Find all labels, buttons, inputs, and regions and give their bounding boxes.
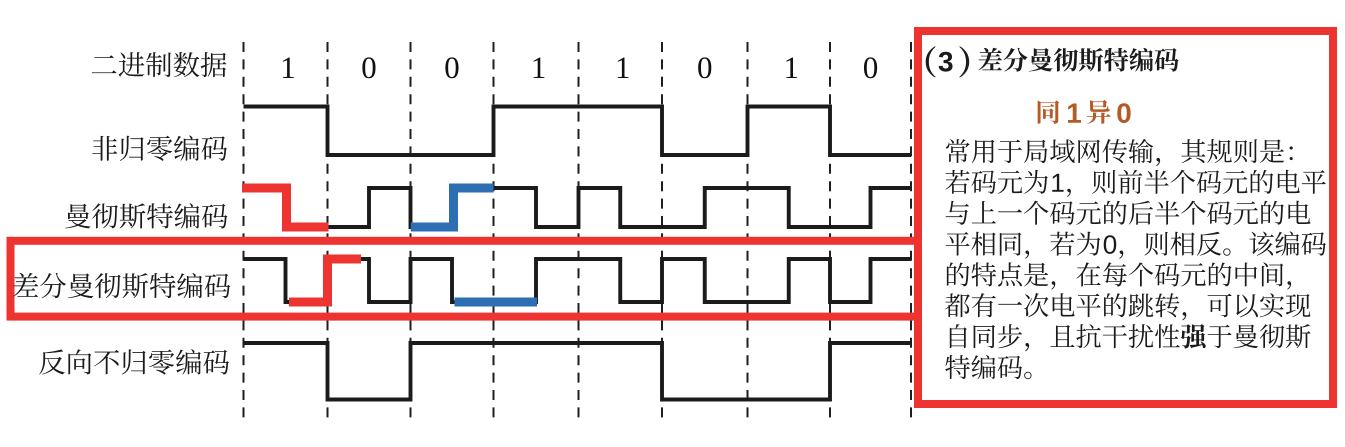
- body text line 3: [946, 201, 1311, 225]
- dashed cell boundary 3: [410, 42, 412, 421]
- body text line 6: [945, 293, 1310, 320]
- orange subtitle 1: [1068, 104, 1081, 123]
- dashed cell boundary 9: [910, 42, 912, 421]
- dashed cell boundary 6: [661, 42, 663, 421]
- NRZ waveform: [244, 107, 912, 156]
- NRZI waveform: [244, 343, 912, 400]
- panel heading 差分曼彻斯特编码: [979, 48, 1179, 72]
- bit value 0 (cell 6): [698, 57, 711, 78]
- red highlight rectangle around Diff-Manchester row: [11, 241, 919, 317]
- red pen highlight on Diff-Manchester: [289, 259, 361, 302]
- row label 反向不归零编码: [39, 349, 229, 374]
- blue pen highlight on Manchester bit 3: [411, 188, 494, 227]
- panel heading closing paren: [959, 46, 969, 77]
- body text line 7: [950, 324, 1311, 351]
- Differential Manchester waveform: [244, 259, 912, 302]
- body text line 1: [946, 139, 1293, 166]
- row label 差分曼彻斯特编码: [13, 273, 230, 298]
- body text line 5: [947, 262, 1291, 289]
- bit value 0 (cell 2): [362, 57, 375, 78]
- bit value 1 (cell 7): [786, 58, 797, 78]
- row label 曼彻斯特编码: [65, 203, 227, 228]
- dashed cell boundary 7: [747, 42, 749, 421]
- Manchester waveform: [244, 188, 912, 227]
- body text line 4: [946, 231, 1326, 258]
- dashed cell boundary 8: [829, 42, 831, 421]
- row label 二进制数据: [92, 52, 227, 77]
- body text line 2: [945, 170, 1325, 197]
- red pen highlight on Manchester bit 1: [242, 188, 329, 227]
- dashed cell boundary 5: [578, 42, 580, 421]
- row label 非归零编码: [92, 135, 227, 160]
- blue pen highlight on Diff-Manchester: [455, 298, 538, 307]
- orange subtitle 异: [1087, 100, 1111, 124]
- dashed cell boundary 1: [243, 42, 245, 421]
- bit value 1 (cell 4): [534, 58, 545, 78]
- bit value 1 (cell 1): [283, 58, 294, 78]
- panel heading opening paren: [926, 46, 936, 77]
- red bordered explanation panel: [918, 31, 1333, 404]
- bit value 0 (cell 8): [864, 57, 877, 78]
- dashed cell boundary 4: [493, 42, 495, 421]
- orange subtitle 0: [1117, 103, 1130, 123]
- bit value 1 (cell 5): [618, 58, 629, 78]
- bit value 0 (cell 3): [445, 57, 458, 78]
- dashed cell boundary 2: [327, 42, 329, 421]
- panel heading digit 3: [939, 52, 953, 72]
- body text line 8: [945, 355, 1031, 379]
- orange subtitle 同: [1038, 100, 1060, 123]
